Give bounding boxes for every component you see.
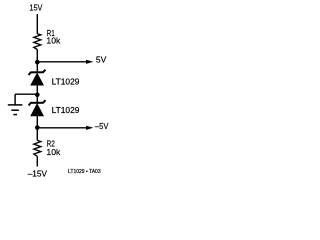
svg-text:LT1029: LT1029 — [52, 105, 80, 115]
node -5V junction dot — [35, 125, 40, 130]
svg-text:5V: 5V — [96, 54, 107, 64]
svg-text:–15V: –15V — [28, 168, 48, 178]
node +5V junction dot — [35, 60, 40, 65]
wire D2 to R2, through -5V node — [36, 116, 38, 141]
wire ground stem vertical — [14, 94, 16, 105]
svg-text:10k: 10k — [46, 147, 61, 157]
arrow to 5V output — [86, 60, 93, 64]
wire +5V node to output arrow — [37, 61, 86, 63]
wire GND node to ground stem — [15, 93, 37, 95]
svg-text:10k: 10k — [46, 36, 61, 46]
wire R1 to zener D1, through +5V node — [36, 50, 38, 73]
node GND junction dot — [35, 93, 40, 98]
zener D2 right bend — [43, 100, 45, 103]
wire 15V to R1 — [36, 14, 38, 34]
zener diode D2 LT1029 cathode bar — [30, 102, 43, 104]
zener D1 left bend — [29, 72, 31, 75]
zener diode D1 anode triangle — [30, 73, 44, 86]
zener D2 left bend — [29, 103, 31, 106]
resistor R2 — [34, 140, 41, 156]
ground symbol — [8, 105, 23, 115]
zener diode D1 LT1029 cathode bar — [30, 71, 43, 73]
wire -5V node to output arrow — [37, 127, 86, 129]
wire D1 to D2, through GND node — [36, 85, 38, 103]
svg-text:LT1029 • TA03: LT1029 • TA03 — [68, 169, 101, 175]
wire R2 to -15V — [36, 156, 38, 166]
arrow to -5V output — [86, 126, 93, 130]
svg-text:15V: 15V — [29, 2, 42, 12]
zener diode D2 anode triangle — [30, 103, 44, 116]
zener D1 right bend — [43, 70, 45, 73]
svg-text:–5V: –5V — [95, 121, 109, 131]
svg-text:LT1029: LT1029 — [52, 77, 80, 87]
resistor R1 — [34, 34, 41, 50]
